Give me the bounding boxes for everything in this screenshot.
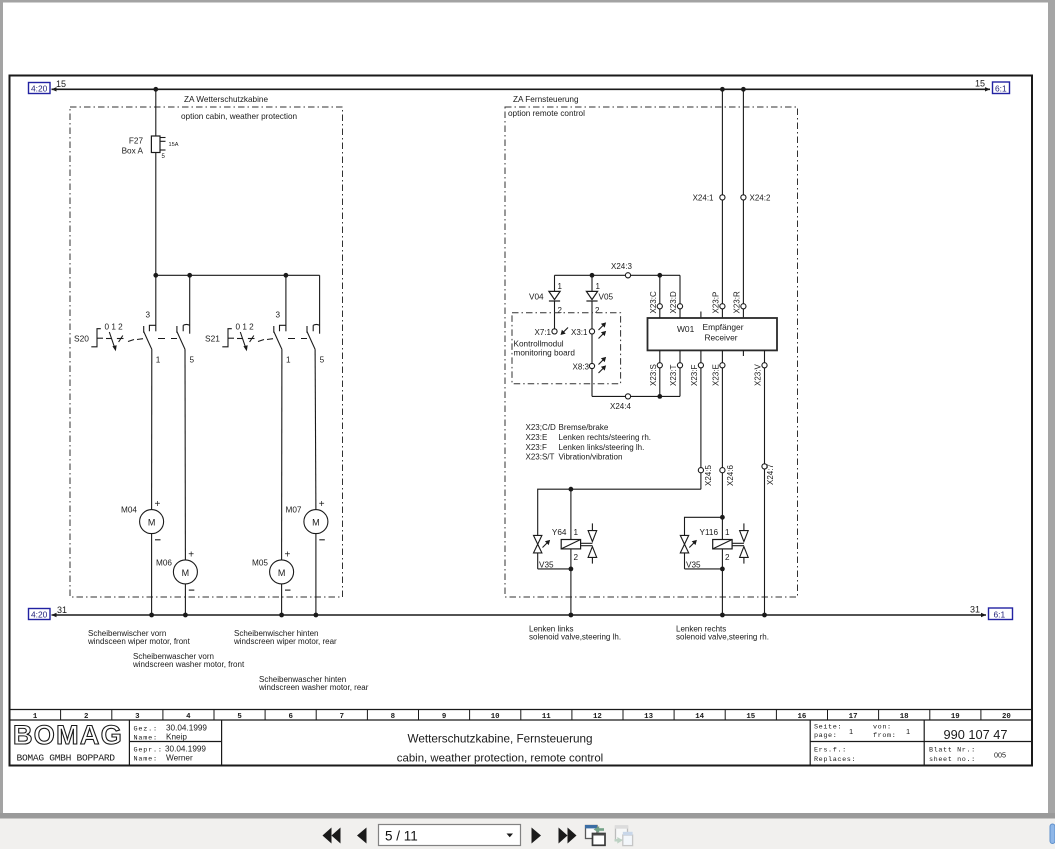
svg-text:31: 31 xyxy=(970,605,980,615)
svg-text:Vibration/vibration: Vibration/vibration xyxy=(559,453,623,462)
svg-text:1: 1 xyxy=(596,282,601,291)
svg-text:Wetterschutzkabine, Fernsteuer: Wetterschutzkabine, Fernsteuerung xyxy=(408,733,593,746)
svg-text:4: 4 xyxy=(186,713,191,721)
svg-text:X23:R: X23:R xyxy=(732,291,741,313)
svg-text:sheet no.:: sheet no.: xyxy=(929,756,976,764)
svg-text:F27: F27 xyxy=(129,137,144,146)
svg-text:1: 1 xyxy=(558,282,563,291)
svg-text:990 107 47: 990 107 47 xyxy=(943,727,1007,742)
svg-text:Ers.f.:: Ers.f.: xyxy=(814,747,847,755)
svg-text:30.04.1999: 30.04.1999 xyxy=(165,745,206,754)
svg-text:17: 17 xyxy=(849,713,858,721)
svg-text:M04: M04 xyxy=(121,506,137,515)
svg-text:4:20: 4:20 xyxy=(31,610,48,620)
svg-text:X3:1: X3:1 xyxy=(571,328,588,337)
svg-text:M: M xyxy=(278,568,286,578)
svg-text:windscreen washer motor, rear: windscreen washer motor, rear xyxy=(258,683,369,692)
svg-text:Kneip: Kneip xyxy=(166,733,187,742)
svg-text:20: 20 xyxy=(1002,713,1011,721)
svg-text:1: 1 xyxy=(286,356,291,365)
svg-text:2: 2 xyxy=(595,306,600,315)
svg-text:Gez.:: Gez.: xyxy=(134,726,158,734)
svg-text:5: 5 xyxy=(320,356,325,365)
svg-text:+: + xyxy=(188,549,194,560)
svg-text:10: 10 xyxy=(491,713,500,721)
svg-text:windscreen washer motor, front: windscreen washer motor, front xyxy=(132,660,245,669)
svg-text:option cabin, weather protecti: option cabin, weather protection xyxy=(181,112,298,121)
svg-text:M: M xyxy=(182,568,190,578)
svg-text:from:: from: xyxy=(873,732,896,740)
svg-text:2: 2 xyxy=(725,553,730,562)
svg-text:9: 9 xyxy=(442,713,446,721)
svg-text:Gepr.:: Gepr.: xyxy=(134,747,163,755)
svg-text:X24:5: X24:5 xyxy=(704,465,713,486)
svg-text:X23:V: X23:V xyxy=(754,364,763,386)
svg-text:11: 11 xyxy=(542,713,551,721)
svg-text:005: 005 xyxy=(994,751,1006,760)
svg-text:1: 1 xyxy=(849,727,853,736)
svg-text:Lenken rechts/steering rh.: Lenken rechts/steering rh. xyxy=(559,433,652,442)
svg-text:option remote control: option remote control xyxy=(508,109,585,118)
svg-text:5 / 11: 5 / 11 xyxy=(385,829,418,844)
svg-text:6:1: 6:1 xyxy=(995,83,1007,93)
svg-text:Name:: Name: xyxy=(134,756,158,764)
svg-text:X23:C: X23:C xyxy=(649,291,658,313)
svg-text:1: 1 xyxy=(156,356,161,365)
svg-text:X24:4: X24:4 xyxy=(610,402,631,411)
svg-text:M07: M07 xyxy=(286,506,302,515)
svg-text:solenoid valve,steering lh.: solenoid valve,steering lh. xyxy=(529,633,621,642)
svg-text:S20: S20 xyxy=(74,334,89,344)
svg-text:+: + xyxy=(319,499,325,510)
svg-text:Bremse/brake: Bremse/brake xyxy=(559,423,609,432)
svg-text:solenoid valve,steering rh.: solenoid valve,steering rh. xyxy=(676,633,769,642)
svg-text:15: 15 xyxy=(56,79,66,89)
svg-text:3: 3 xyxy=(135,713,140,721)
svg-text:19: 19 xyxy=(951,713,960,721)
svg-text:6:1: 6:1 xyxy=(994,609,1006,619)
svg-text:15: 15 xyxy=(975,79,985,89)
svg-text:BOMAG: BOMAG xyxy=(13,720,123,750)
svg-text:monitoring board: monitoring board xyxy=(514,349,576,358)
svg-text:0 1 2: 0 1 2 xyxy=(105,323,124,332)
svg-text:+: + xyxy=(155,499,161,510)
svg-text:X23:P: X23:P xyxy=(711,292,720,314)
svg-text:Box A: Box A xyxy=(122,147,144,156)
svg-text:X23:S: X23:S xyxy=(649,364,658,386)
svg-text:page:: page: xyxy=(814,732,837,740)
svg-text:Lenken links/steering lh.: Lenken links/steering lh. xyxy=(559,443,645,452)
svg-text:Blatt Nr.:: Blatt Nr.: xyxy=(929,747,976,755)
svg-text:Werner: Werner xyxy=(166,754,193,763)
svg-text:Kontrollmodul: Kontrollmodul xyxy=(514,340,564,349)
svg-text:X7:1: X7:1 xyxy=(535,328,552,337)
svg-text:30.04.1999: 30.04.1999 xyxy=(166,724,207,733)
svg-text:X24:7: X24:7 xyxy=(766,464,775,485)
svg-text:13: 13 xyxy=(644,713,653,721)
svg-text:1: 1 xyxy=(906,727,910,736)
svg-text:X24:2: X24:2 xyxy=(750,194,771,203)
svg-text:Name:: Name: xyxy=(134,735,158,743)
svg-text:M06: M06 xyxy=(156,559,172,568)
svg-text:Seite:: Seite: xyxy=(814,724,842,732)
svg-text:12: 12 xyxy=(593,713,602,721)
svg-text:S21: S21 xyxy=(205,334,220,344)
svg-text:18: 18 xyxy=(900,713,909,721)
svg-text:15: 15 xyxy=(746,713,755,721)
svg-text:V05: V05 xyxy=(599,293,614,302)
svg-text:15A: 15A xyxy=(169,142,179,148)
svg-text:X8:3: X8:3 xyxy=(573,363,590,372)
svg-text:6: 6 xyxy=(288,713,293,721)
svg-text:M: M xyxy=(312,518,320,528)
svg-text:2: 2 xyxy=(574,553,579,562)
svg-text:1: 1 xyxy=(725,528,730,537)
svg-text:ZA Fernsteuerung: ZA Fernsteuerung xyxy=(513,95,579,104)
svg-text:14: 14 xyxy=(695,713,704,721)
svg-text:cabin, weather protection, re: cabin, weather protection, remote contro… xyxy=(397,753,603,765)
svg-text:X23:E: X23:E xyxy=(711,364,720,386)
svg-text:von:: von: xyxy=(873,724,892,732)
svg-text:X24:3: X24:3 xyxy=(611,262,632,271)
svg-text:X23:F: X23:F xyxy=(526,443,547,452)
svg-text:16: 16 xyxy=(797,713,806,721)
svg-text:31: 31 xyxy=(57,605,67,615)
svg-text:3: 3 xyxy=(276,311,281,320)
svg-text:8: 8 xyxy=(391,713,396,721)
svg-text:Y64: Y64 xyxy=(552,528,567,537)
svg-text:1: 1 xyxy=(574,528,579,537)
svg-text:4:20: 4:20 xyxy=(31,84,48,94)
svg-text:V04: V04 xyxy=(529,293,544,302)
svg-text:X23:F: X23:F xyxy=(690,365,699,386)
svg-text:3: 3 xyxy=(146,311,151,320)
svg-text:X23:S/T: X23:S/T xyxy=(526,453,555,462)
svg-text:windsceen wiper motor, front: windsceen wiper motor, front xyxy=(87,637,191,646)
svg-text:X24:1: X24:1 xyxy=(693,194,714,203)
svg-text:Receiver: Receiver xyxy=(704,333,737,343)
svg-text:Replaces:: Replaces: xyxy=(814,756,856,764)
svg-text:W01: W01 xyxy=(677,324,695,334)
svg-text:X23:E: X23:E xyxy=(526,433,548,442)
svg-text:2: 2 xyxy=(558,306,563,315)
svg-text:7: 7 xyxy=(340,713,344,721)
svg-text:BOMAG GMBH BOPPARD: BOMAG GMBH BOPPARD xyxy=(17,753,116,764)
svg-text:X23;C/D: X23;C/D xyxy=(526,423,556,432)
svg-text:windscreen wiper motor, rear: windscreen wiper motor, rear xyxy=(233,637,337,646)
svg-text:X23:D: X23:D xyxy=(669,291,678,313)
svg-text:Y116: Y116 xyxy=(699,528,718,537)
svg-text:ZA Wetterschutzkabine: ZA Wetterschutzkabine xyxy=(184,95,268,104)
svg-text:5: 5 xyxy=(237,713,242,721)
svg-text:+: + xyxy=(285,549,291,560)
svg-text:0 1 2: 0 1 2 xyxy=(236,323,255,332)
svg-text:X23:T: X23:T xyxy=(669,365,678,386)
svg-text:5: 5 xyxy=(190,356,195,365)
svg-text:M: M xyxy=(148,518,156,528)
svg-text:X24:6: X24:6 xyxy=(726,465,735,486)
svg-text:Empfänger: Empfänger xyxy=(703,322,744,332)
svg-text:V35: V35 xyxy=(686,561,701,570)
svg-text:V35: V35 xyxy=(539,561,554,570)
svg-text:M05: M05 xyxy=(252,559,268,568)
